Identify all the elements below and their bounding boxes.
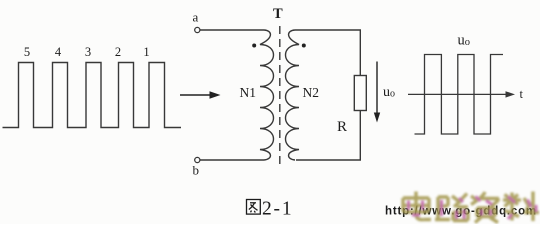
signal flow arrow [180,91,221,99]
wire: secondary top to load [295,30,360,76]
wire: resistor bottom to secondary bottom [296,111,360,161]
transformer primary winding N1 [260,30,274,160]
caption 图2-1 : hand-drawn 图 glyph [247,200,261,215]
char 资 [471,192,499,223]
svg-text:N2: N2 [303,85,320,100]
input pulse train waveform [3,63,182,128]
transformer core (dashed) [279,26,281,167]
t axis [408,93,507,95]
svg-text:T: T [273,6,283,22]
svg-text:4: 4 [55,45,62,59]
char 电 [403,192,431,220]
square wave trace [415,55,504,135]
wire: terminal b to primary bottom [200,159,264,161]
svg-text:R: R [337,119,347,135]
char 料 [503,192,539,222]
resistor R body [354,76,366,111]
svg-text:uo: uo [458,33,471,49]
output voltage arrow uo [374,62,380,123]
svg-text:t: t [520,87,524,101]
svg-text:3: 3 [85,45,91,59]
svg-text:2-1: 2-1 [262,199,293,220]
svg-text:2: 2 [115,45,121,59]
svg-text:5: 5 [24,45,30,59]
watermark 电路资料 (stylized strokes) [403,192,539,223]
transformer secondary winding N2 [286,30,300,160]
wire: terminal a to primary top [200,29,264,31]
svg-text:1: 1 [143,45,149,59]
output square wave uo(t) [408,55,515,135]
polarity dot secondary [302,44,306,48]
svg-text:a: a [193,10,199,25]
polarity dot primary [252,44,256,48]
svg-text:uo: uo [383,85,395,100]
terminal b [195,157,200,162]
char 路 [435,194,468,221]
terminal a [195,27,200,32]
svg-text:N1: N1 [240,85,257,100]
svg-text:b: b [193,163,200,178]
